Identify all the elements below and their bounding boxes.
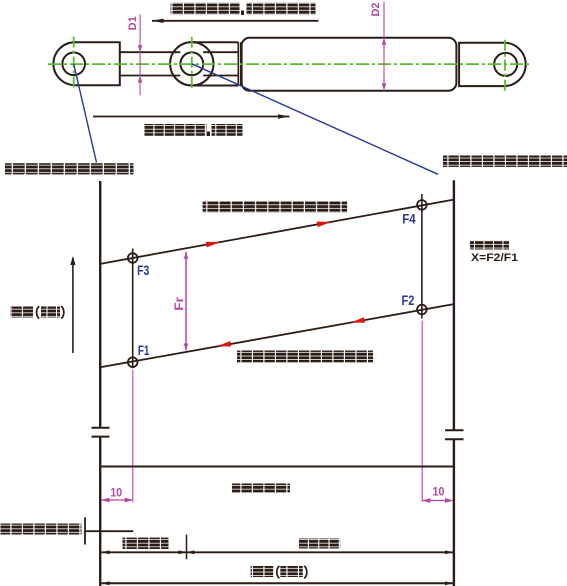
green center mark left eyelet	[73, 37, 75, 91]
green center mark right eyelet	[504, 40, 506, 91]
graph right axis	[453, 180, 455, 586]
upper force line (compression)	[100, 200, 453, 264]
top annotation line	[152, 20, 319, 22]
blue leader line from middle eyelet	[192, 64, 438, 175]
marker F2	[417, 305, 427, 315]
left eyelet hole	[62, 53, 85, 76]
svg-text:D2: D2	[370, 2, 382, 16]
pressure axis arrow	[72, 258, 74, 353]
D2 arrows	[382, 38, 386, 91]
vertical connector F3-F1	[132, 249, 134, 369]
left 10 dimension	[102, 499, 133, 501]
svg-text:F1: F1	[138, 342, 150, 358]
marker F4	[417, 200, 427, 210]
marker F3	[128, 253, 138, 263]
svg-text:Fr: Fr	[172, 297, 186, 311]
svg-text:F4: F4	[402, 210, 415, 226]
spring constant label 彈簧常數	[470, 241, 509, 250]
top annotation text 氮氣缸伸展時, 末段產生緩衝	[171, 3, 240, 15]
gas spring: left eyelet body	[53, 42, 119, 85]
red arrow lower line 1	[216, 341, 231, 349]
dimension D1 line	[139, 14, 141, 95]
label 當氮氣缸行程伸展時的反力	[237, 351, 373, 363]
magenta drop line below F1	[132, 370, 134, 502]
label 阻尼的範圍	[232, 484, 290, 493]
bottom annotation text 氮氣缸壓縮時, 無緩衝	[145, 124, 207, 136]
label 行程壓縮至最小時的反力	[443, 156, 567, 167]
svg-text:F3: F3	[137, 262, 149, 278]
red arrow upper line 2	[317, 219, 332, 227]
svg-text:10: 10	[110, 485, 122, 499]
cylinder body	[242, 38, 457, 91]
lower force line (extension)	[100, 304, 453, 367]
blue leader line from left eyelet	[74, 64, 97, 163]
junction verticals	[238, 42, 240, 85]
svg-text:X=F2/F1: X=F2/F1	[471, 252, 518, 264]
label 當氮氣缸行程壓縮時的反力	[203, 201, 348, 213]
stroke dim arrows	[102, 581, 454, 585]
green main centerline	[48, 63, 531, 65]
svg-text:F2: F2	[402, 292, 415, 308]
split dim arrows	[102, 550, 454, 554]
label 取決於安裝方式	[1, 524, 82, 535]
label 壓力 (牛頓)	[10, 307, 33, 318]
red arrow lower line 2	[350, 317, 365, 325]
dimension D2 line	[383, 2, 385, 91]
bottom annotation line	[93, 116, 290, 118]
piston rod top line	[120, 51, 239, 53]
graph left axis	[99, 181, 101, 586]
right 10 dimension	[422, 500, 453, 502]
stroke dimension line	[102, 582, 454, 584]
piston rod bottom line	[120, 75, 239, 77]
middle fitting tangent lines	[192, 42, 239, 85]
middle eyelet outer circle	[170, 42, 213, 85]
magenta drop line below F2	[421, 321, 423, 502]
mounting bracket horizontal	[84, 530, 133, 532]
bottom annotation arrowhead	[278, 114, 290, 118]
top annotation arrowhead	[152, 19, 164, 23]
label 行程 (公釐)	[251, 566, 274, 577]
vertical connector F4-F2	[421, 194, 423, 318]
right fitting hole	[494, 53, 517, 76]
svg-text:10: 10	[433, 485, 445, 499]
svg-text:D1: D1	[127, 16, 139, 30]
middle eyelet hole	[180, 52, 203, 75]
label 液壓阻尼	[123, 538, 169, 549]
green center mark middle eyelet	[191, 37, 193, 91]
right axis break symbol	[445, 430, 464, 439]
split tick	[186, 535, 188, 560]
D1 arrows	[138, 45, 142, 82]
damping split dimension line	[102, 551, 454, 553]
red arrow upper line 1	[206, 239, 221, 247]
mounting bracket vertical	[84, 517, 86, 544]
label 氮氣壓力	[299, 539, 340, 549]
right fitting body	[459, 43, 526, 86]
damping range box top line	[100, 466, 454, 468]
marker F1	[128, 357, 138, 367]
Fr arrow	[185, 252, 187, 351]
label 行程伸展至最大時的反力	[5, 163, 134, 174]
left axis break symbol	[92, 428, 110, 437]
